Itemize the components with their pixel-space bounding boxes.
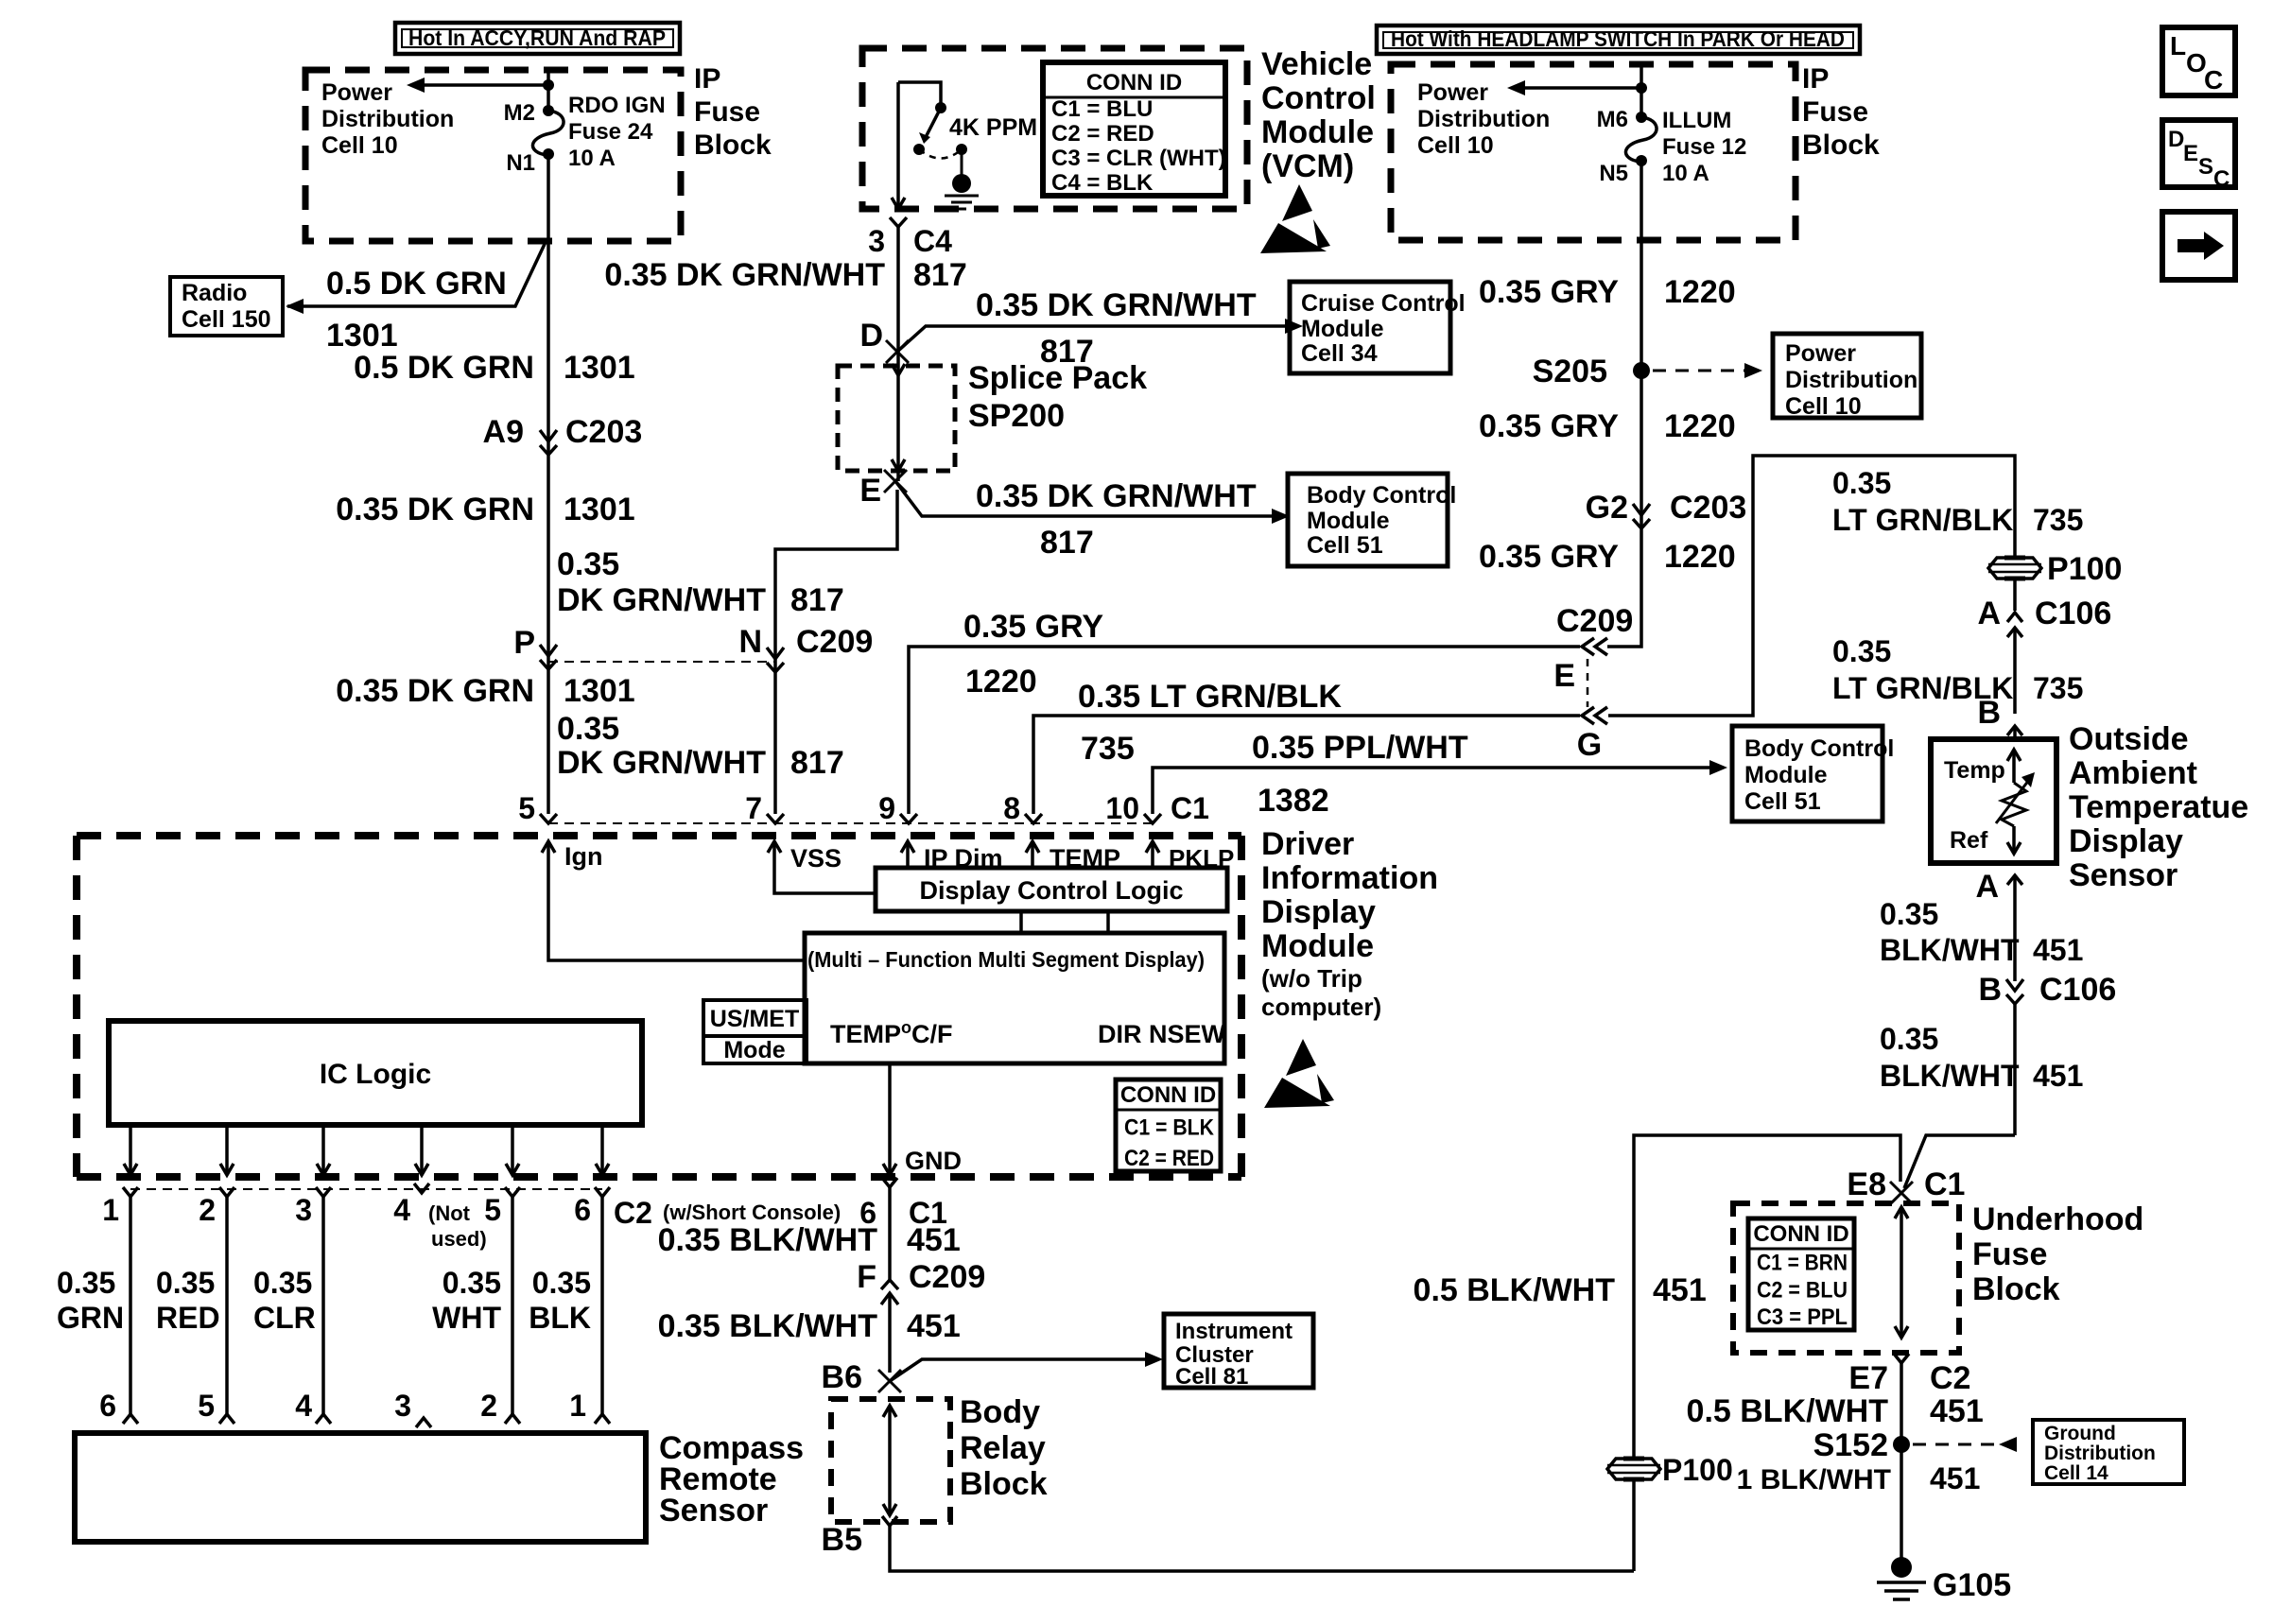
wire tap to Radio: diagonal + horizontal [287,242,546,306]
svg-text:Vehicle: Vehicle [1261,46,1372,82]
svg-text:CONN ID: CONN ID [1120,1082,1216,1108]
svg-text:Distribution: Distribution [1417,106,1550,132]
svg-text:B6: B6 [822,1359,862,1395]
svg-text:C4: C4 [913,224,952,258]
svg-text:P100: P100 [2047,551,2122,587]
svg-text:4: 4 [393,1193,410,1227]
svg-text:E8: E8 [1847,1166,1886,1202]
svg-text:BLK: BLK [529,1301,591,1335]
svg-text:7: 7 [745,791,762,825]
wire to Instrument Cluster [890,1359,1146,1381]
svg-text:0.35 PPL/WHT: 0.35 PPL/WHT [1252,730,1468,766]
svg-text:ILLUM: ILLUM [1662,108,1731,133]
DIDM module dashed outline [77,832,1241,839]
svg-text:8: 8 [1003,791,1020,825]
connector C203 pin G2 [1633,504,1650,515]
CONN ID table (display) [1116,1080,1221,1171]
sensor thermistor [2012,752,2016,783]
svg-text:CONN ID: CONN ID [1086,70,1182,95]
svg-text:0.35: 0.35 [557,546,619,582]
svg-text:10 A: 10 A [568,146,616,171]
wire 1382 PPL/WHT from pin 10 to BCM [1153,768,1710,814]
svg-text:6: 6 [574,1193,591,1227]
svg-text:Display: Display [2069,823,2183,859]
pin arrows into module: Ign [547,843,550,860]
svg-text:DK GRN/WHT: DK GRN/WHT [557,582,766,618]
svg-text:0.35: 0.35 [442,1266,501,1300]
svg-text:computer): computer) [1261,993,1381,1021]
pin 7 chevron [767,814,784,823]
svg-text:Driver: Driver [1261,826,1354,862]
svg-text:C1 = BRN: C1 = BRN [1757,1251,1848,1276]
svg-text:C209: C209 [909,1259,985,1295]
svg-text:D: D [859,318,883,354]
svg-text:Distribution: Distribution [2044,1443,2156,1464]
svg-text:0.35 BLK/WHT: 0.35 BLK/WHT [658,1222,878,1258]
svg-text:0.5 DK GRN: 0.5 DK GRN [354,350,534,386]
svg-text:Display: Display [1261,894,1376,930]
svg-text:451: 451 [907,1308,961,1344]
wire 735 LT GRN/BLK from pin 8 to sensor [1033,716,1580,814]
grommet P100 (left) [1607,1459,1660,1479]
connector C2 pin 1 chevron+wire [123,1187,138,1197]
svg-text:1382: 1382 [1258,783,1329,819]
svg-text:Mode: Mode [723,1037,785,1063]
svg-text:D: D [2168,127,2184,152]
svg-text:LT GRN/BLK: LT GRN/BLK [1832,503,2013,537]
Power Distribution Cell 10 box (right ref) [1773,334,1921,418]
svg-text:10 A: 10 A [1662,161,1709,186]
svg-text:1220: 1220 [1664,408,1736,444]
legend box DESC [2162,120,2235,187]
compass pin 3 chevron (not used) [416,1418,431,1427]
svg-text:1301: 1301 [326,318,398,354]
wire arrow to Power Distribution (right) [1522,86,1641,90]
pin 8 chevron [1025,814,1042,823]
svg-text:N: N [738,624,762,660]
svg-text:C209: C209 [1556,603,1633,639]
svg-text:E7: E7 [1848,1360,1888,1396]
svg-text:Hot With HEADLAMP SWITCH In PA: Hot With HEADLAMP SWITCH In PARK Or HEAD [1391,26,1845,51]
svg-text:817: 817 [1040,525,1094,561]
svg-text:CONN ID: CONN ID [1753,1221,1848,1247]
connector C106 pin A [2013,579,2017,611]
svg-text:5: 5 [518,791,535,825]
svg-text:C2 = BLU: C2 = BLU [1757,1277,1848,1303]
connector C2 pin E7 [1894,1354,1909,1363]
svg-text:Display Control Logic: Display Control Logic [919,876,1183,905]
Vehicle Control Module dashed box [862,48,1247,209]
svg-text:RED: RED [156,1301,220,1335]
svg-text:C209: C209 [796,624,873,660]
svg-text:E: E [2183,141,2198,166]
svg-text:Block: Block [960,1466,1048,1502]
svg-text:451: 451 [1930,1461,1980,1495]
node: junction dot at fuse feed [543,79,554,91]
dashed reference to Power Distribution [1653,370,1745,372]
IC Logic output arrow 1 [129,1125,132,1172]
wire 1220 from N5 down [1607,161,1641,647]
svg-text:4K PPM: 4K PPM [949,114,1037,141]
CONN ID table (VCM) [1043,62,1225,196]
svg-text:Information: Information [1261,860,1438,896]
svg-text:S152: S152 [1813,1427,1888,1463]
svg-text:Fuse: Fuse [694,96,760,128]
connector X pin E [884,470,907,492]
svg-text:A9: A9 [483,414,524,450]
svg-text:817: 817 [790,582,844,618]
svg-text:DK GRN/WHT: DK GRN/WHT [557,745,766,781]
svg-text:817: 817 [790,745,844,781]
svg-text:1301: 1301 [564,350,635,386]
grommet P100 (right) [1988,558,2041,579]
svg-text:Body Control: Body Control [1307,482,1456,509]
svg-text:C106: C106 [2039,972,2116,1008]
svg-text:A: A [1977,596,2001,631]
svg-text:5: 5 [198,1389,215,1423]
ESD warning symbol (VCM) [1282,184,1312,221]
svg-text:10: 10 [1105,791,1139,825]
svg-text:Fuse 12: Fuse 12 [1662,134,1746,160]
svg-text:Fuse: Fuse [1802,96,1868,128]
wire 817 from E down-left to N [775,490,897,814]
svg-text:0.35 DK GRN/WHT: 0.35 DK GRN/WHT [604,257,885,293]
svg-text:IP: IP [1802,63,1829,95]
connector X pin D [886,340,909,363]
connector C2 pin 2 chevron+wire [219,1187,234,1197]
IC Logic output arrow 5 [511,1125,514,1172]
svg-text:0.35 DK GRN: 0.35 DK GRN [336,673,534,709]
wire 1220 GRY from C209 to pin 9 [909,647,1580,814]
IC Logic output arrow 6 [600,1125,604,1172]
svg-text:(VCM): (VCM) [1261,148,1354,184]
svg-text:4: 4 [295,1389,312,1423]
chevrons C209 E [1582,638,1594,655]
GND wire [888,1063,892,1172]
svg-text:G105: G105 [1933,1567,2011,1603]
wire Ign inside module [548,860,805,960]
svg-text:Module: Module [1261,114,1374,150]
dashed connector E-G [1587,659,1589,707]
dashed reference to Ground Distribution [1913,1443,1997,1446]
svg-text:CLR: CLR [253,1301,316,1335]
svg-text:Fuse: Fuse [1972,1236,2047,1272]
svg-text:Cell 81: Cell 81 [1175,1364,1248,1390]
svg-text:0.35: 0.35 [1880,1022,1938,1056]
svg-text:C3 = PPL: C3 = PPL [1757,1304,1848,1330]
wire: arrow to Power Distribution (left) [423,83,548,87]
arrowhead to Radio [286,299,304,314]
svg-text:0.5 BLK/WHT: 0.5 BLK/WHT [1687,1393,1889,1429]
Ground Distribution Cell 14 box [2033,1420,2184,1484]
svg-text:IP: IP [694,63,720,95]
splice S152 [1893,1436,1910,1453]
svg-text:Cell 14: Cell 14 [2044,1462,2108,1484]
connector C2 pin 4 chevron (not used) [414,1183,429,1193]
connector X pin B6 [878,1370,901,1392]
Underhood Fuse Block dashed box [1733,1203,1959,1353]
legend box arrow [2162,212,2235,280]
svg-text:Ign: Ign [564,842,603,871]
svg-text:1301: 1301 [564,492,635,527]
svg-text:451: 451 [907,1222,961,1258]
connector C209 pin F [881,1293,898,1304]
wire to Body Control Module (817) [895,481,1273,516]
wire 451 up right side [1632,1478,1636,1571]
svg-text:1: 1 [102,1193,119,1227]
svg-text:0.35 GRY: 0.35 GRY [1479,408,1619,444]
svg-text:Cruise Control: Cruise Control [1301,290,1466,317]
svg-text:Cell 51: Cell 51 [1744,788,1821,815]
svg-text:1220: 1220 [1664,539,1736,575]
svg-text:1220: 1220 [1664,274,1736,310]
svg-text:0.35: 0.35 [253,1266,312,1300]
svg-text:735: 735 [2033,503,2083,537]
Multi-Function display box [805,933,1224,1063]
svg-text:Module: Module [1261,928,1374,964]
svg-text:C2: C2 [614,1196,652,1230]
ground G105 [1891,1557,1912,1578]
svg-text:0.35 GRY: 0.35 GRY [1479,539,1619,575]
svg-text:0.35: 0.35 [1880,897,1938,931]
fuse F12 element [1625,117,1657,162]
connector C209 pin P [540,645,557,656]
svg-text:5: 5 [484,1193,501,1227]
svg-text:0.35: 0.35 [557,711,619,747]
svg-text:Ground: Ground [2044,1423,2116,1444]
svg-text:L: L [2170,31,2186,60]
VSS signal switch in VCM [896,82,900,206]
Compass Remote Sensor box [75,1433,646,1542]
svg-text:B5: B5 [822,1522,862,1558]
svg-text:Module: Module [1301,316,1384,342]
svg-text:6: 6 [99,1389,116,1423]
svg-text:Cell 10: Cell 10 [321,132,398,159]
svg-text:735: 735 [1081,731,1135,767]
links DCL to display [1019,911,1023,933]
svg-text:3: 3 [868,224,885,258]
svg-text:C203: C203 [565,414,642,450]
svg-text:(w/Short Console): (w/Short Console) [663,1201,841,1224]
pin 9 chevron [900,814,917,823]
IC Logic output arrow 2 [225,1125,229,1172]
svg-text:1 BLK/WHT: 1 BLK/WHT [1737,1464,1891,1495]
svg-text:Cell 51: Cell 51 [1307,532,1383,559]
svg-text:B: B [1978,972,2002,1008]
svg-text:C: C [2213,166,2230,192]
svg-text:3: 3 [394,1389,411,1423]
svg-text:3: 3 [295,1193,312,1227]
IC Logic box [109,1021,642,1125]
chevrons C209 G [1582,707,1594,724]
svg-text:E: E [859,473,881,509]
svg-text:P: P [513,625,535,661]
connector C4 pin 3 below VCM [890,217,907,227]
svg-text:C203: C203 [1670,490,1746,526]
svg-text:1220: 1220 [965,664,1037,700]
svg-text:Cell 10: Cell 10 [1417,132,1494,159]
svg-text:Distribution: Distribution [1785,367,1917,393]
svg-text:Fuse 24: Fuse 24 [568,119,653,145]
splice S205 [1633,362,1650,379]
connector C2 pin 5 chevron+wire [505,1187,520,1197]
svg-text:Module: Module [1307,508,1390,534]
Instrument Cluster Cell 81 box [1164,1314,1313,1388]
svg-text:2: 2 [199,1193,216,1227]
connector C1 pin 6 (GND wire) [882,1178,897,1187]
svg-text:Ambient: Ambient [2069,755,2197,791]
svg-text:DIR NSEW: DIR NSEW [1098,1020,1226,1048]
svg-text:GND: GND [905,1147,962,1175]
US/MET Mode buttons [703,1000,807,1036]
wire 817 from VCM down [896,227,900,481]
svg-text:0.35: 0.35 [532,1266,591,1300]
svg-text:451: 451 [2033,933,2083,967]
fuse F24 terminal N1 [543,148,554,160]
callout box: Hot With HEADLAMP SWITCH In PARK Or HEAD [1377,26,1860,54]
ESD warning symbol (DIDM) [1286,1039,1316,1076]
svg-text:S205: S205 [1533,354,1607,389]
svg-text:SP200: SP200 [968,398,1065,434]
svg-text:Hot In ACCY,RUN And RAP: Hot In ACCY,RUN And RAP [408,26,666,50]
svg-text:Cell 34: Cell 34 [1301,340,1378,367]
pin arrows into module: TEMP [1031,843,1034,868]
svg-text:0.35: 0.35 [156,1266,215,1300]
Outside Ambient Temperature Display Sensor box [1931,739,2056,863]
svg-text:(w/o Trip: (w/o Trip [1261,964,1362,993]
Splice Pack SP200 dashed box [838,366,955,471]
svg-text:0.35 DK GRN: 0.35 DK GRN [336,492,534,527]
connector C2 pin 3 chevron+wire [316,1187,331,1197]
svg-text:G: G [1577,727,1602,763]
pin 5 chevron at module boundary [540,814,557,823]
svg-text:Power: Power [321,79,392,106]
connector C106 pin B (down) [2006,979,2023,991]
svg-text:Sensor: Sensor [2069,857,2178,893]
svg-text:Ref: Ref [1950,827,1988,854]
svg-text:Power: Power [1785,340,1856,367]
pin arrows into module: VSS [772,843,776,860]
legend box LOC [2162,27,2235,95]
svg-text:0.35 GRY: 0.35 GRY [1479,274,1619,310]
svg-text:M2: M2 [504,100,535,126]
switch ground leg [961,149,963,180]
Display Control Logic box [876,868,1227,911]
connector Y pin B5 [882,1516,897,1526]
svg-text:IC Logic: IC Logic [320,1059,431,1090]
svg-text:0.35 BLK/WHT: 0.35 BLK/WHT [658,1308,878,1344]
svg-text:Sensor: Sensor [659,1493,768,1529]
svg-text:M6: M6 [1597,107,1628,132]
wire corner into E8 [1904,1135,2015,1188]
svg-text:C4 = BLK: C4 = BLK [1051,170,1154,196]
IP Fuse Block (right) dashed box [1391,64,1796,240]
svg-text:VSS: VSS [790,844,842,872]
svg-text:0.35 DK GRN/WHT: 0.35 DK GRN/WHT [976,478,1257,514]
svg-text:WHT: WHT [432,1301,501,1335]
svg-text:RDO IGN: RDO IGN [568,93,666,118]
svg-text:Control: Control [1261,80,1376,116]
wire to Cruise Control Module [897,326,1286,352]
ground symbol in VCM [945,195,979,198]
svg-text:BLK/WHT: BLK/WHT [1880,1059,2020,1093]
svg-text:Temp: Temp [1944,757,2005,784]
CONN ID table (underhood) [1748,1218,1854,1330]
fuse F12 ILLUM terminal M6 [1636,112,1647,123]
svg-text:(Not: (Not [428,1201,471,1225]
Body Control Module Cell 51 box (first) [1288,474,1448,566]
svg-text:Block: Block [694,130,772,161]
svg-text:0.35: 0.35 [57,1266,115,1300]
svg-text:A: A [1975,869,1999,905]
wire 1301: N1 down to pin 5 [547,154,550,814]
svg-text:(Multi – Function Multi Segmen: (Multi – Function Multi Segment Display) [807,947,1205,972]
svg-text:Block: Block [1972,1271,2060,1307]
svg-text:GRN: GRN [57,1301,124,1335]
svg-text:C2 = RED: C2 = RED [1051,121,1154,147]
callout box: Hot In ACCY,RUN And RAP [395,23,680,54]
fuse F24 RDO IGN: terminal M2 [543,105,554,116]
svg-text:N1: N1 [506,150,535,176]
svg-text:Power: Power [1417,79,1488,106]
thin dashed connector strip pins 5-10 [548,822,1153,824]
svg-text:US/MET: US/MET [710,1006,799,1032]
svg-text:0.35: 0.35 [1832,466,1891,500]
svg-text:735: 735 [2033,671,2083,705]
pin arrows into module: PKLP [1151,843,1154,868]
svg-text:Body Control: Body Control [1744,735,1894,762]
svg-text:451: 451 [1653,1272,1707,1308]
wire: fuse feed from top (right) [1640,64,1643,117]
svg-text:451: 451 [2033,1059,2083,1093]
thin dashed connector strip C2 [130,1188,602,1190]
svg-text:9: 9 [878,791,895,825]
svg-text:C: C [2204,65,2223,95]
Body Relay Block dashed box [831,1399,950,1522]
svg-text:0.35 GRY: 0.35 GRY [963,609,1103,645]
svg-text:Cell 10: Cell 10 [1785,393,1862,420]
svg-text:0.35 LT GRN/BLK: 0.35 LT GRN/BLK [1078,679,1342,715]
svg-text:Block: Block [1802,130,1880,161]
Radio Cell 150 box [170,277,283,336]
svg-text:0.35 DK GRN/WHT: 0.35 DK GRN/WHT [976,287,1257,323]
svg-text:C2 = RED: C2 = RED [1124,1146,1214,1171]
dashed arc of switch [919,149,962,159]
svg-text:1301: 1301 [564,673,635,709]
svg-text:Body: Body [960,1394,1040,1430]
Body Control Module Cell 51 box (second) [1732,726,1883,821]
wire: fuse feed from top [547,70,550,111]
IC Logic output arrow 4 [420,1125,424,1172]
svg-text:G2: G2 [1586,490,1628,526]
svg-text:817: 817 [913,257,967,293]
svg-text:Outside: Outside [2069,721,2189,757]
pin 10 chevron [1144,814,1161,823]
svg-text:0.5 BLK/WHT: 0.5 BLK/WHT [1414,1272,1616,1308]
thin dashed connector strip P-N [548,661,775,663]
svg-text:P100: P100 [1662,1453,1733,1487]
svg-text:0.35: 0.35 [1832,634,1891,668]
svg-text:Instrument: Instrument [1175,1319,1293,1344]
svg-text:TEMPoC/F: TEMPoC/F [830,1018,953,1048]
IP Fuse Block (left) dashed box [305,70,681,241]
svg-text:Module: Module [1744,762,1828,788]
IC Logic output arrow 3 [321,1125,325,1172]
svg-text:C106: C106 [2035,596,2111,631]
wire VSS inside module [774,860,876,893]
svg-text:F: F [857,1259,876,1295]
fuse F24 element [532,111,564,155]
